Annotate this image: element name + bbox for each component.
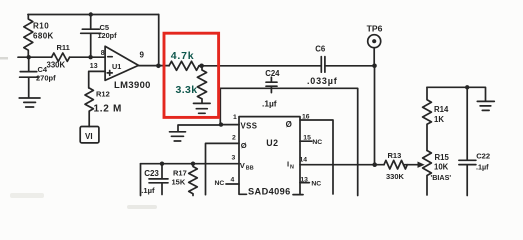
- test point TP6: [368, 35, 381, 48]
- svg-text:2: 2: [232, 135, 236, 142]
- capacitor C22: [459, 87, 476, 195]
- svg-text:LM3900: LM3900: [114, 79, 151, 90]
- capacitor C5: [81, 15, 101, 58]
- box V1: [80, 127, 99, 143]
- wire R13 to arrow: [404, 164, 419, 166]
- resistor 4.7k: [169, 61, 199, 70]
- arrow R15 wiper: [418, 162, 425, 168]
- svg-text:330K: 330K: [47, 60, 66, 69]
- svg-text:VI: VI: [85, 132, 93, 141]
- svg-text:U1: U1: [112, 62, 121, 71]
- svg-text:R13: R13: [388, 151, 402, 160]
- junction node R11 right: [88, 55, 92, 59]
- wire pin3 drop: [140, 164, 142, 196]
- svg-text:C6: C6: [315, 45, 326, 54]
- wire top right bus: [427, 87, 486, 101]
- svg-text:R12: R12: [96, 90, 110, 99]
- svg-text:3: 3: [232, 155, 236, 162]
- svg-text:BB: BB: [246, 166, 254, 172]
- wire vss drop: [219, 88, 221, 124]
- ground 3.3k: [194, 103, 211, 113]
- highlight box red: [164, 33, 219, 117]
- svg-text:13: 13: [300, 176, 308, 183]
- wire R11 to opamp: [70, 56, 106, 58]
- svg-text:16: 16: [302, 114, 310, 121]
- wire plus input: [89, 71, 105, 88]
- wire TP6 stem: [373, 48, 375, 66]
- svg-text:14: 14: [300, 156, 308, 163]
- resistor R11: [52, 53, 70, 61]
- IC U2: [239, 117, 300, 195]
- svg-text:270pf: 270pf: [36, 74, 56, 83]
- ground C4: [19, 98, 40, 107]
- junction node C5 top: [89, 12, 93, 16]
- resistor R12: [85, 88, 93, 127]
- svg-text:.033µf: .033µf: [307, 76, 338, 86]
- wire left stub: [18, 56, 52, 58]
- svg-text:I: I: [287, 160, 289, 169]
- ground vss: [170, 132, 186, 141]
- resistor R14: [423, 87, 432, 150]
- svg-text:680K: 680K: [33, 31, 54, 40]
- scan smudge left: [0, 57, 8, 60]
- resistor R15: [423, 151, 432, 196]
- junction node TP6: [372, 64, 377, 69]
- svg-text:U2: U2: [266, 138, 278, 148]
- capacitor C24: [266, 77, 277, 92]
- junction node R14: [465, 85, 469, 89]
- svg-text:R15: R15: [435, 153, 450, 162]
- junction node R17: [191, 162, 195, 166]
- wire pin16: [300, 120, 333, 194]
- svg-text:4.7k: 4.7k: [171, 50, 195, 62]
- wire C6 to TP6 node: [325, 65, 375, 67]
- junction node C23: [160, 162, 164, 166]
- svg-text:8: 8: [101, 50, 105, 57]
- junction node 4.7k-3.3k: [199, 64, 204, 69]
- svg-text:1K: 1K: [434, 115, 444, 124]
- op-amp minus: [108, 56, 112, 58]
- resistor R13: [384, 160, 407, 169]
- wire pin3 bus: [141, 163, 240, 165]
- capacitor C23: [149, 164, 168, 195]
- svg-text:SAD4096: SAD4096: [248, 187, 291, 197]
- svg-text:.1µf: .1µf: [141, 186, 155, 195]
- svg-text:.1µf: .1µf: [476, 162, 489, 171]
- svg-text:'BIAS': 'BIAS': [431, 173, 452, 182]
- svg-text:C24: C24: [265, 69, 280, 78]
- svg-text:.1µf: .1µf: [262, 99, 277, 109]
- svg-text:Ø: Ø: [241, 141, 247, 150]
- svg-text:13: 13: [90, 63, 98, 70]
- wire pin4 stub: [226, 183, 239, 185]
- svg-text:4: 4: [231, 177, 235, 184]
- svg-text:1.2 M: 1.2 M: [94, 104, 123, 115]
- capacitor C6: [321, 57, 325, 73]
- svg-text:R11: R11: [57, 43, 70, 52]
- wire output bus: [199, 65, 321, 67]
- op-amp U1: [105, 46, 138, 80]
- svg-text:15: 15: [303, 135, 311, 142]
- op-amp plus: [107, 71, 112, 76]
- wire feedback vertical: [158, 15, 160, 66]
- svg-text:NC: NC: [215, 180, 225, 187]
- svg-text:Ø: Ø: [286, 120, 292, 129]
- svg-text:9: 9: [140, 51, 145, 60]
- svg-text:330K: 330K: [386, 172, 405, 181]
- wire second bus: [220, 88, 358, 195]
- svg-text:NC: NC: [312, 139, 322, 146]
- svg-text:15K: 15K: [172, 177, 186, 186]
- svg-text:1: 1: [233, 114, 237, 121]
- svg-text:C22: C22: [476, 152, 490, 161]
- svg-text:NC: NC: [311, 180, 321, 187]
- svg-text:120pf: 120pf: [98, 31, 118, 40]
- scan smudge bottom mid: [127, 205, 157, 209]
- wire opamp output: [139, 65, 170, 67]
- resistor R17: [189, 164, 198, 196]
- junction node output: [156, 64, 161, 69]
- test point TP6 center dot: [372, 39, 376, 43]
- wire top bus: [28, 14, 159, 16]
- wire pin1: [220, 124, 239, 126]
- wire vss to ground: [178, 125, 220, 131]
- resistor 3.3k: [197, 66, 206, 103]
- svg-text:VSS: VSS: [241, 122, 258, 131]
- wire pin2: [206, 143, 240, 194]
- wire pin13 stub: [300, 182, 309, 184]
- svg-text:C23: C23: [144, 169, 159, 178]
- wire pin14: [300, 164, 384, 166]
- junction node VSS: [219, 122, 223, 126]
- capacitor C4: [20, 57, 38, 97]
- junction node R11 left: [27, 55, 31, 59]
- svg-text:R10: R10: [33, 22, 49, 31]
- svg-text:3.3k: 3.3k: [176, 84, 198, 96]
- ground right: [477, 101, 494, 110]
- wire TP6 vertical: [374, 66, 376, 165]
- svg-text:10K: 10K: [434, 162, 449, 171]
- svg-text:R17: R17: [173, 168, 187, 177]
- svg-text:N: N: [290, 165, 294, 171]
- junction node pin14: [372, 162, 377, 167]
- svg-text:TP6: TP6: [367, 24, 383, 34]
- svg-text:R14: R14: [434, 105, 449, 114]
- wire pin15 stub: [300, 140, 312, 142]
- IC U2 bottom right tick: [300, 194, 303, 196]
- resistor R10: [24, 15, 33, 58]
- scan smudge bottom left: [10, 193, 44, 198]
